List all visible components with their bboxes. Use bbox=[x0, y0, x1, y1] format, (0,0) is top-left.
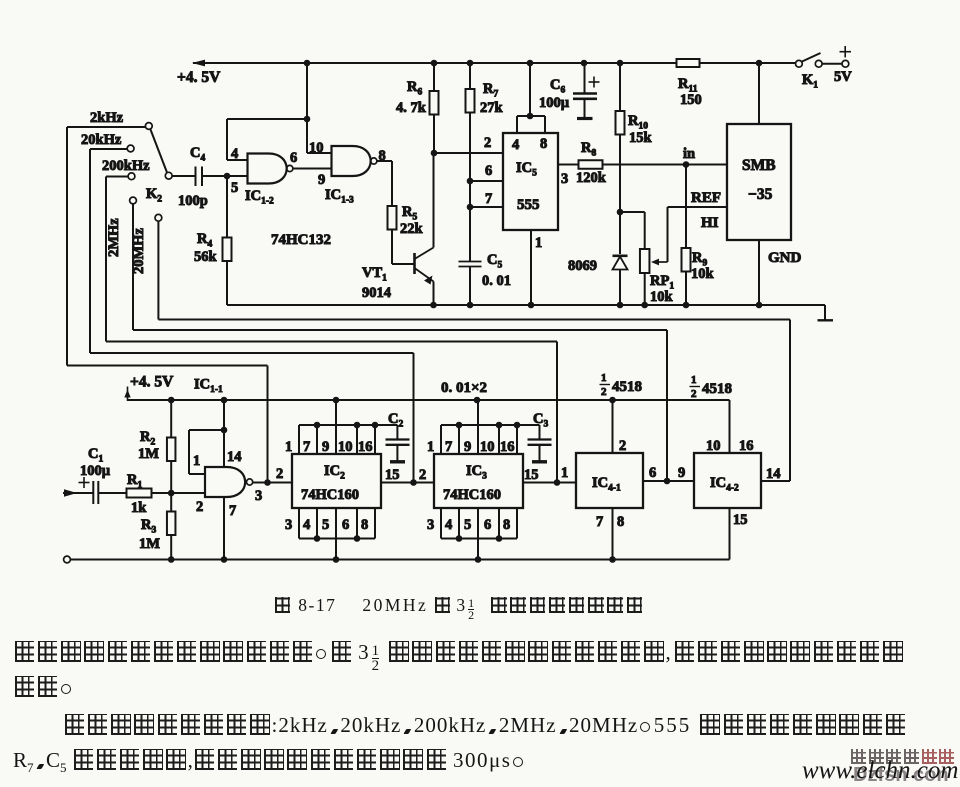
label -35 bbox=[748, 186, 773, 203]
node pin2/collector junction bbox=[431, 150, 438, 157]
label 4.7k bbox=[396, 100, 427, 116]
label 74HC132 bbox=[271, 232, 331, 248]
wire 555 pin1 to ground bbox=[530, 230, 532, 305]
label pin 6 bbox=[342, 517, 349, 533]
label pin 1 bbox=[285, 439, 292, 455]
wire IC1-1 pin7 to ground bbox=[223, 497, 225, 560]
svg-text:56k: 56k bbox=[194, 249, 218, 265]
label IC1-1 bbox=[194, 377, 223, 396]
wire R5 to VT1 base bbox=[392, 230, 414, 265]
svg-text:4: 4 bbox=[512, 137, 519, 153]
wire VCC feed to pin4/pin10 (x=307) bbox=[307, 63, 332, 153]
wire pin4 tie line bbox=[227, 119, 307, 160]
wire 200kHz tap route bbox=[106, 342, 557, 483]
ic IC4-1 box bbox=[576, 453, 643, 508]
label pin 9 bbox=[318, 172, 325, 188]
node 20kHz contact bbox=[127, 145, 134, 152]
wire pin stub bbox=[356, 425, 358, 454]
wire 555 pin3 to R8 bbox=[558, 164, 579, 166]
wire VCC stub bbox=[477, 400, 479, 425]
label pin 9 bbox=[322, 439, 329, 455]
svg-text:1: 1 bbox=[601, 372, 607, 384]
svg-text:8: 8 bbox=[503, 517, 510, 533]
svg-text:5: 5 bbox=[231, 180, 238, 196]
svg-text:IC3: IC3 bbox=[466, 463, 487, 482]
wire 555 pin2 bbox=[434, 152, 503, 154]
svg-text:15k: 15k bbox=[629, 130, 653, 146]
wire pin stub bbox=[335, 425, 337, 454]
capacitor C6 bbox=[573, 63, 597, 119]
wire +4.5V top power rail bbox=[192, 60, 796, 67]
svg-text:14: 14 bbox=[227, 449, 242, 465]
paragraph 2 line 2 bbox=[13, 748, 527, 776]
node pin7 junction bbox=[467, 204, 474, 211]
node 200kHz contact bbox=[128, 173, 135, 180]
wire IC4-2 pin15 ground bbox=[729, 508, 731, 560]
wire 555 pin6 bbox=[470, 180, 503, 182]
node IC4-1 ground junction bbox=[609, 556, 616, 563]
label C1 100u bbox=[80, 463, 111, 479]
wire IC4-1 pins7/8 ground bbox=[612, 508, 614, 560]
wire C4 node to IC1-2 pin 5 bbox=[227, 175, 248, 177]
wire ground stub bbox=[335, 539, 337, 560]
label pin 14 bbox=[227, 449, 242, 465]
label R6 bbox=[407, 79, 422, 98]
label pin 8 bbox=[379, 148, 386, 164]
svg-text:16: 16 bbox=[358, 439, 373, 455]
svg-text:C6: C6 bbox=[550, 77, 565, 96]
switch K2 lever bbox=[151, 130, 168, 173]
resistor R7 bbox=[466, 89, 475, 113]
label 200kHz bbox=[102, 158, 150, 174]
wire pin stub bbox=[440, 425, 442, 454]
label R4 bbox=[197, 231, 212, 250]
wire R3 top bbox=[170, 493, 172, 512]
svg-text:8: 8 bbox=[617, 514, 624, 530]
wire R3 bottom to ground bbox=[170, 535, 172, 560]
node in junction bbox=[683, 161, 690, 168]
wire zener node to RP1 top bbox=[620, 212, 645, 249]
svg-text:7: 7 bbox=[229, 503, 236, 519]
label IC3 pin 2 bbox=[419, 467, 426, 483]
ground symbol bbox=[818, 319, 834, 321]
node bus junction bbox=[496, 535, 503, 542]
wire IC1-1 pin14 VCC bbox=[223, 400, 225, 467]
wire VCC stub bbox=[335, 400, 337, 425]
wire bus to C3 bbox=[517, 425, 540, 439]
label 27k bbox=[480, 100, 504, 116]
wire 2kHz tap route bbox=[67, 366, 268, 483]
svg-text:7: 7 bbox=[303, 439, 310, 455]
label K2 bbox=[146, 186, 162, 205]
wire 555 pin7 bbox=[470, 206, 503, 208]
label IC4-1 pin 2 bbox=[619, 438, 626, 454]
wire IC1-1 output to IC2 bbox=[253, 482, 292, 484]
label C1 plus bbox=[79, 477, 90, 488]
wire 555 pins 4,8 to VCC bbox=[517, 63, 545, 133]
label 5V plus bbox=[840, 46, 852, 57]
resistor R3 bbox=[167, 512, 176, 536]
svg-text:R8: R8 bbox=[581, 140, 596, 159]
label IC1-3 bbox=[325, 187, 354, 206]
label IC2 pin 2 bbox=[276, 466, 283, 482]
wire K2 common to C4 bbox=[172, 175, 195, 177]
resistor R8 bbox=[579, 160, 603, 169]
wire bottom pin bus bbox=[299, 538, 375, 540]
wire pin1 feedback loop bbox=[189, 430, 224, 474]
resistor R4 bbox=[223, 238, 232, 262]
label VT1 bbox=[362, 265, 387, 284]
svg-text:200kHz: 200kHz bbox=[102, 158, 150, 174]
node R3 ground junction bbox=[168, 556, 175, 563]
svg-text:2: 2 bbox=[619, 438, 626, 454]
label IC5 bbox=[516, 160, 537, 179]
label pin 4 bbox=[445, 517, 452, 533]
label 5V bbox=[834, 69, 852, 85]
svg-text:2: 2 bbox=[276, 466, 283, 482]
svg-text:C1: C1 bbox=[88, 446, 103, 465]
label 555 bbox=[517, 197, 540, 213]
node bus junction bbox=[456, 422, 463, 429]
svg-text:C5: C5 bbox=[487, 252, 502, 271]
ic IC2 top pin bus bbox=[299, 424, 397, 426]
svg-text:R7: R7 bbox=[483, 81, 498, 100]
label pin 6 bbox=[485, 163, 492, 179]
svg-text:1: 1 bbox=[691, 374, 697, 386]
label 56k bbox=[194, 249, 218, 265]
svg-text:1: 1 bbox=[561, 465, 568, 481]
label 15 (IC3 out) bbox=[524, 467, 539, 483]
svg-text:100µ: 100µ bbox=[80, 463, 111, 479]
ic box IC bbox=[434, 454, 523, 508]
svg-text:+4. 5V: +4. 5V bbox=[130, 374, 174, 391]
wire RP1 bottom to ground bbox=[644, 273, 646, 305]
label pin 5 bbox=[464, 517, 471, 533]
svg-text:IC4-2: IC4-2 bbox=[710, 475, 739, 494]
label IC4-1 bbox=[592, 475, 621, 494]
svg-text:10: 10 bbox=[338, 439, 353, 455]
svg-text:SMB: SMB bbox=[742, 157, 776, 174]
label pin 3 bbox=[561, 171, 568, 187]
svg-text:15: 15 bbox=[385, 467, 400, 483]
label pin 14 bbox=[766, 466, 781, 482]
label pin 3 bbox=[285, 517, 292, 533]
label 15 (IC2 out) bbox=[385, 467, 400, 483]
node bus junction bbox=[314, 422, 321, 429]
wire R4 bottom to ground rail bbox=[226, 261, 228, 305]
svg-text:7: 7 bbox=[445, 439, 452, 455]
svg-text:1: 1 bbox=[427, 439, 434, 455]
node feedback tee bbox=[304, 116, 311, 123]
svg-text:2kHz: 2kHz bbox=[90, 110, 124, 126]
label C2 bbox=[388, 411, 403, 430]
label +4.5V bbox=[177, 69, 221, 86]
svg-text:8: 8 bbox=[361, 517, 368, 533]
node bus junction bbox=[456, 535, 463, 542]
paragraph 1 line 1 bbox=[13, 640, 904, 673]
wire pin stub bbox=[298, 508, 300, 539]
svg-text:2: 2 bbox=[196, 499, 203, 515]
svg-text:0. 01: 0. 01 bbox=[482, 273, 511, 289]
svg-text:1M: 1M bbox=[138, 446, 159, 462]
label SMB bbox=[742, 157, 776, 174]
svg-text:9: 9 bbox=[464, 439, 471, 455]
svg-text:2: 2 bbox=[419, 467, 426, 483]
svg-text:K2: K2 bbox=[146, 186, 162, 205]
svg-text:VT1: VT1 bbox=[362, 265, 387, 284]
wire R2 bottom bbox=[170, 461, 172, 493]
svg-text:4518: 4518 bbox=[702, 381, 732, 397]
node IC1-2 pin5 junction bbox=[224, 173, 231, 180]
wire 20MHz tap route bbox=[158, 320, 790, 482]
svg-text:74HC160: 74HC160 bbox=[443, 487, 501, 503]
svg-text:6: 6 bbox=[342, 517, 349, 533]
svg-text:22k: 22k bbox=[400, 221, 424, 237]
wire VT1 emitter to ground rail bbox=[433, 282, 435, 306]
label pin 7 bbox=[596, 514, 603, 530]
label 1k bbox=[131, 500, 147, 516]
label IC4-1 pin 1 bbox=[561, 465, 568, 481]
svg-text:R3: R3 bbox=[141, 517, 156, 536]
wire R1 to gate input bbox=[152, 492, 206, 494]
label lower +4.5V bbox=[130, 374, 174, 391]
switch K1 contact b bbox=[815, 60, 822, 67]
paragraph 1 line 2 bbox=[13, 675, 75, 700]
wire K1 to 5V terminal bbox=[822, 63, 842, 65]
node emitter ground junction bbox=[430, 302, 437, 309]
label C6 plus bbox=[589, 77, 600, 88]
svg-text:R6: R6 bbox=[407, 79, 422, 98]
node RP1 ground junction bbox=[641, 302, 648, 309]
node SMB ground junction bbox=[756, 302, 763, 309]
wire pin stub bbox=[316, 425, 318, 454]
node lower rail junction dots bbox=[168, 397, 616, 404]
node 200kHz tap junction bbox=[554, 479, 561, 486]
node 20MHz contact bbox=[155, 214, 162, 221]
wire +4.5V lower power rail bbox=[124, 387, 729, 454]
svg-text:2MHz: 2MHz bbox=[106, 218, 122, 257]
label 74HC160 bbox=[443, 487, 501, 503]
label R7 bbox=[483, 81, 498, 100]
wire pin stub bbox=[316, 508, 318, 539]
wire R7 top bbox=[469, 63, 471, 89]
resistor R6 bbox=[430, 91, 439, 115]
svg-text:0. 01×2: 0. 01×2 bbox=[441, 380, 487, 396]
caption figure 8-17 bbox=[273, 595, 644, 621]
svg-text:IC5: IC5 bbox=[516, 160, 537, 179]
node pin6 junction bbox=[467, 178, 474, 185]
label R1 bbox=[127, 472, 142, 491]
svg-text:4. 7k: 4. 7k bbox=[396, 100, 427, 116]
label pin 1 bbox=[535, 235, 542, 251]
zener diode 8069 bbox=[613, 256, 628, 305]
svg-text:7: 7 bbox=[596, 514, 603, 530]
svg-text:in: in bbox=[683, 146, 695, 162]
wire bottom ground rail bbox=[70, 559, 730, 561]
node R9 ground junction bbox=[683, 302, 690, 309]
node input ground terminal bbox=[64, 556, 71, 563]
label pin 1 bbox=[193, 453, 200, 469]
svg-text:−35: −35 bbox=[748, 186, 773, 203]
ic box IC bbox=[292, 454, 381, 508]
svg-text:10k: 10k bbox=[650, 289, 674, 305]
label R5 bbox=[402, 204, 417, 223]
svg-text:C4: C4 bbox=[190, 145, 205, 164]
wire pin stub bbox=[356, 508, 358, 539]
label pin 7 bbox=[445, 439, 452, 455]
svg-text:10: 10 bbox=[480, 439, 495, 455]
node 2kHz contact bbox=[145, 123, 152, 130]
wire top-section ground rail bbox=[227, 305, 825, 320]
svg-text:REF: REF bbox=[691, 190, 721, 206]
transistor VT1 bbox=[415, 248, 434, 285]
wire R6 top bbox=[433, 63, 435, 91]
ic SMB-35 box bbox=[727, 124, 791, 240]
label 20kHz bbox=[81, 132, 122, 148]
label R10 bbox=[628, 113, 648, 132]
wire pin stub bbox=[516, 425, 518, 454]
svg-text:16: 16 bbox=[500, 439, 515, 455]
svg-text:3: 3 bbox=[561, 171, 568, 187]
label R3 bbox=[141, 517, 156, 536]
label HI bbox=[701, 215, 719, 231]
wire bottom pin bus bbox=[441, 538, 517, 540]
label R8 bbox=[581, 140, 596, 159]
svg-text:1M: 1M bbox=[139, 536, 160, 552]
svg-text:7: 7 bbox=[485, 191, 492, 207]
label 100u bbox=[539, 95, 570, 111]
svg-text:3: 3 bbox=[285, 517, 292, 533]
node ground junction bbox=[333, 556, 340, 563]
switch K1 contact a bbox=[796, 60, 803, 67]
label pin 6 bbox=[649, 465, 656, 481]
svg-text:1: 1 bbox=[193, 453, 200, 469]
node output/2kHz tap junction bbox=[264, 479, 271, 486]
svg-text:IC1-2: IC1-2 bbox=[245, 188, 274, 207]
label pin 4 bbox=[512, 137, 519, 153]
wire pin stub bbox=[440, 508, 442, 539]
svg-text:K1: K1 bbox=[802, 72, 818, 91]
node 5V terminal bbox=[842, 60, 849, 67]
label pin 3 bbox=[255, 488, 262, 504]
label half 4518 second bbox=[690, 374, 733, 400]
node bus junction bbox=[372, 422, 379, 429]
node top rail junction dots bbox=[304, 60, 763, 67]
wire R7 bottom down to C5 bbox=[469, 113, 471, 262]
label pin 9 bbox=[464, 439, 471, 455]
node ground junction bbox=[475, 556, 482, 563]
wire SMB top supply bbox=[758, 63, 760, 124]
svg-text:IC4-1: IC4-1 bbox=[592, 475, 621, 494]
label pin 7 bbox=[229, 503, 236, 519]
svg-text:9: 9 bbox=[678, 465, 685, 481]
svg-text:4518: 4518 bbox=[612, 379, 642, 395]
svg-text:100p: 100p bbox=[178, 193, 208, 209]
svg-text:+4. 5V: +4. 5V bbox=[177, 69, 221, 86]
wire pin stub bbox=[516, 508, 518, 539]
wire VT1 collector up to R6 node bbox=[433, 153, 435, 248]
wire IC2 pin15 to IC3 pin2 bbox=[381, 482, 434, 484]
svg-text:10k: 10k bbox=[691, 266, 715, 282]
label pin 7 bbox=[303, 439, 310, 455]
label 20MHz vertical bbox=[131, 228, 147, 274]
label pin 10 bbox=[338, 439, 353, 455]
wire 2MHz contact lead bbox=[132, 204, 134, 330]
label pin 16 bbox=[358, 439, 373, 455]
wire pin stub bbox=[374, 508, 376, 539]
svg-text:74HC132: 74HC132 bbox=[271, 232, 331, 248]
label GND bbox=[768, 250, 802, 266]
node pin1 ground junction bbox=[528, 302, 535, 309]
node bus junction bbox=[514, 422, 521, 429]
nand gate IC1-3 bbox=[332, 146, 377, 176]
svg-text:6: 6 bbox=[484, 517, 491, 533]
wire R6 bottom to pin2 node bbox=[433, 115, 435, 154]
label IC bbox=[324, 463, 345, 482]
svg-text:9014: 9014 bbox=[362, 285, 391, 301]
label RP1 bbox=[650, 273, 674, 292]
wire 20kHz tap route bbox=[90, 353, 414, 483]
wire R8 to SMB in bbox=[603, 164, 728, 166]
svg-text:C2: C2 bbox=[388, 411, 403, 430]
label pin 5 bbox=[322, 517, 329, 533]
label pin 2 bbox=[484, 135, 491, 151]
label pin 6 bbox=[290, 150, 297, 166]
svg-text:R2: R2 bbox=[140, 429, 155, 448]
svg-text:4: 4 bbox=[303, 517, 310, 533]
svg-text:10: 10 bbox=[706, 438, 721, 454]
resistor R11 bbox=[677, 59, 700, 67]
label in bbox=[683, 146, 695, 162]
svg-text:IC1-1: IC1-1 bbox=[194, 377, 223, 396]
svg-text:1: 1 bbox=[535, 235, 542, 251]
svg-text:6: 6 bbox=[290, 150, 297, 166]
svg-text:100µ: 100µ bbox=[539, 95, 570, 111]
resistor R2 bbox=[167, 438, 176, 462]
wire bus to C2 bbox=[375, 425, 397, 439]
node bus junction bbox=[496, 422, 503, 429]
wire R9 top from in node bbox=[685, 165, 687, 249]
node pin4/8 tee bbox=[527, 113, 534, 120]
capacitor C4 bbox=[196, 167, 228, 187]
wire RP1 wiper to REF bbox=[667, 207, 669, 262]
label pin 10 bbox=[309, 140, 324, 156]
node R1/R2/R3 junction bbox=[168, 490, 175, 497]
svg-text:8: 8 bbox=[540, 136, 547, 152]
wire IC3 pin15 to IC4-1 pin1 bbox=[523, 482, 576, 484]
wire input lead bbox=[63, 489, 93, 497]
svg-text:16: 16 bbox=[739, 438, 754, 454]
wire SMB GND to ground rail bbox=[758, 240, 760, 305]
label pin 9 bbox=[678, 465, 685, 481]
label pin 1 bbox=[427, 439, 434, 455]
label 2kHz bbox=[90, 110, 124, 126]
resistor R5 bbox=[388, 206, 397, 230]
wire pin stub bbox=[458, 508, 460, 539]
paragraph 2 line 1 bbox=[63, 713, 907, 738]
label 9014 bbox=[362, 285, 391, 301]
ic IC3 top pin bus bbox=[441, 424, 539, 426]
label C1 bbox=[88, 446, 103, 465]
label R11 bbox=[678, 76, 698, 95]
svg-text:14: 14 bbox=[766, 466, 781, 482]
label pin 7 bbox=[485, 191, 492, 207]
svg-text:2: 2 bbox=[691, 388, 697, 400]
wire R2 top bbox=[170, 400, 172, 438]
svg-text:3: 3 bbox=[427, 517, 434, 533]
node K2 common contact bbox=[165, 172, 172, 179]
svg-text:9: 9 bbox=[322, 439, 329, 455]
